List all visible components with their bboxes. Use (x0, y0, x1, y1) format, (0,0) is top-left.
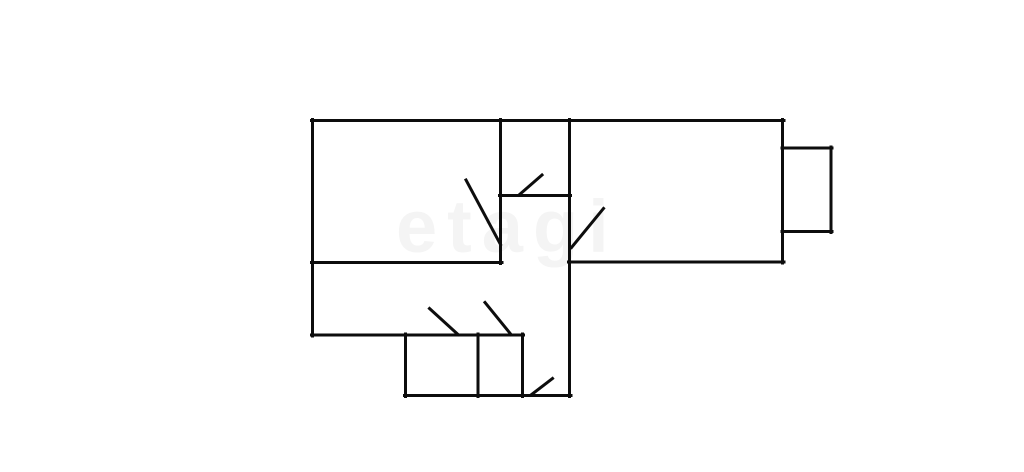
svg-text:etagi: etagi (396, 185, 619, 268)
door swing bathroom left (430, 309, 459, 335)
wall top exterior (312, 119, 785, 122)
wall hall bottom (312, 334, 524, 337)
wall right exterior (781, 120, 784, 264)
bathroom block right wall (521, 334, 524, 397)
wall interior vertical between corridor and right room (568, 120, 571, 397)
wall bottom of left room (312, 261, 503, 264)
bathroom block divider wall (477, 334, 480, 397)
door swing left room (466, 180, 501, 245)
wall interior vertical between left room and corridor (499, 120, 502, 264)
wall bottom of small top room (500, 194, 571, 197)
balcony bottom wall (782, 230, 832, 233)
wall bottom of right room (569, 261, 785, 264)
wall left exterior (311, 120, 314, 337)
balcony top wall (782, 147, 832, 150)
door swing right room (572, 209, 604, 248)
door swing entrance (531, 379, 553, 396)
balcony right wall (830, 147, 833, 233)
door swing bathroom right (485, 303, 511, 335)
bathroom block left wall (404, 334, 407, 397)
door swing small top room (519, 175, 542, 195)
bathroom block bottom wall (405, 394, 572, 397)
